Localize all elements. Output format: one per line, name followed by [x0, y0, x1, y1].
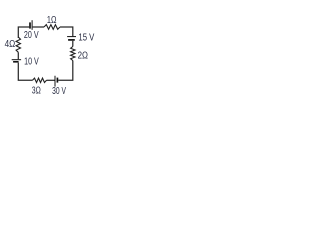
svg-text:4Ω: 4Ω [5, 38, 16, 49]
wire right-bottom + bottom edge to 30V battery [58, 61, 73, 81]
svg-text:1Ω: 1Ω [47, 14, 57, 25]
wire top-mid segment [33, 26, 44, 28]
resistor R2 2ohm zigzag [71, 47, 75, 61]
battery V4 10V plates [12, 60, 21, 62]
svg-text:2Ω: 2Ω [78, 49, 89, 60]
resistor R4 4ohm zigzag [16, 37, 20, 52]
battery V1 20V plates [30, 20, 32, 30]
wire bottom-left + left edge up to 10V battery [18, 63, 32, 81]
resistor R3 3ohm zigzag [33, 78, 47, 82]
svg-text:10 V: 10 V [24, 55, 39, 67]
wire right edge between battery and resistor [72, 41, 74, 47]
battery V3 30V plates [55, 76, 57, 87]
svg-text:3Ω: 3Ω [32, 84, 41, 96]
svg-text:15 V: 15 V [78, 31, 94, 42]
wire top-right segment + right edge down to 15V battery [60, 27, 73, 36]
battery V2 15V plates [67, 37, 76, 40]
wire top-left segment [18, 27, 29, 38]
svg-text:30 V: 30 V [52, 85, 66, 97]
resistor R1 1ohm zigzag [44, 25, 60, 30]
wire left edge between battery and resistor [17, 52, 19, 59]
svg-text:20 V: 20 V [24, 29, 39, 41]
wire bottom segment between battery and resistor [47, 79, 55, 81]
